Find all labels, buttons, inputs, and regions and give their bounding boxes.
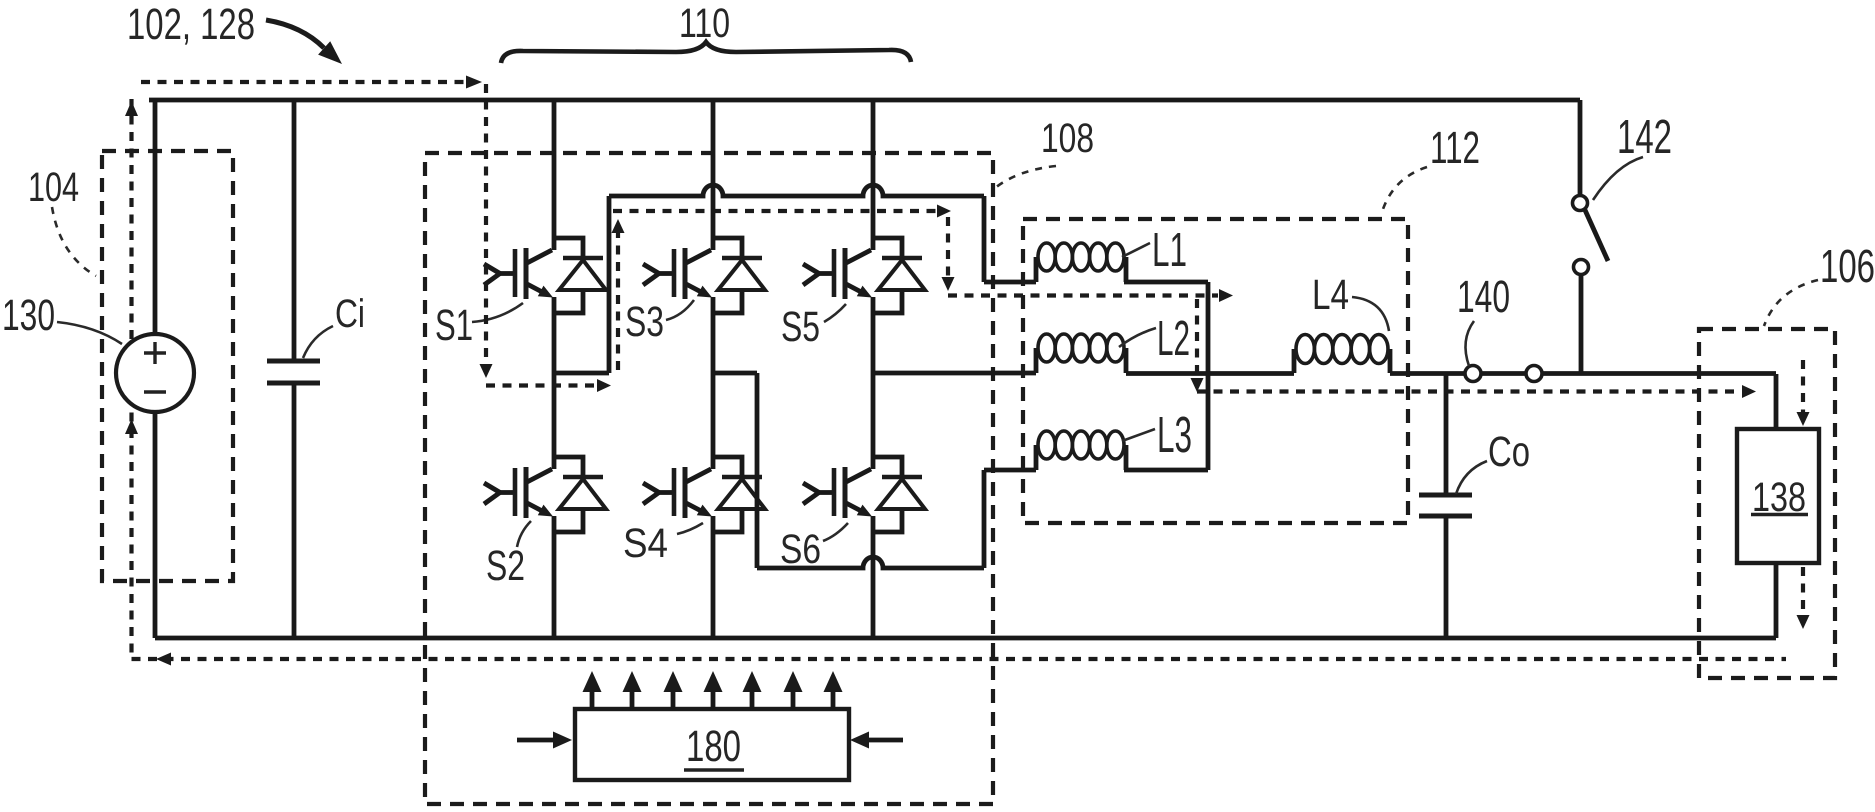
svg-text:104: 104	[28, 164, 79, 210]
transistor S1 with diode	[484, 238, 606, 313]
wire phase A horizontal with hops	[609, 185, 984, 196]
wire source bottom	[153, 412, 158, 638]
label 180	[684, 722, 744, 771]
leader Ci	[303, 326, 333, 358]
label S5	[781, 304, 820, 351]
wire phase A to L1	[984, 280, 1036, 285]
dashed box 112	[1023, 219, 1408, 523]
leader L1	[1122, 243, 1150, 257]
input arrow right of 180	[850, 732, 903, 749]
label S3	[625, 299, 664, 346]
wire positive top rail	[149, 98, 1580, 103]
inductor L4	[1294, 335, 1390, 374]
dashed flow path top horizontal	[613, 205, 951, 218]
label 110	[679, 0, 730, 46]
wire output bus right	[1390, 371, 1776, 376]
wire leg 1 lower	[552, 516, 557, 638]
dashed flow path right below S1	[486, 379, 611, 392]
wire leg 1 upper	[552, 100, 557, 250]
transistor S3 with diode	[643, 238, 765, 313]
voltage source 130 circle	[116, 334, 194, 412]
dashed box 104	[102, 151, 233, 581]
leader 140	[1465, 321, 1474, 366]
wire leg 2 lower	[711, 516, 716, 638]
label Ci	[335, 292, 365, 336]
svg-text:108: 108	[1041, 115, 1094, 161]
wire Ci top	[292, 100, 297, 360]
label 130	[2, 291, 55, 340]
capacitor Ci bottom plate	[267, 381, 320, 386]
label L2	[1157, 311, 1190, 366]
wire switch 142 top	[1578, 100, 1583, 195]
wire phase A riser	[607, 196, 612, 373]
wire source top	[153, 100, 158, 334]
dashed box 108	[425, 153, 993, 804]
wire load to rail	[1774, 563, 1779, 638]
wire phase C to L2	[873, 371, 1036, 376]
label L4	[1312, 272, 1349, 319]
inductor L1	[1036, 243, 1126, 282]
leader 142	[1593, 157, 1643, 200]
wire leg 1 middle	[552, 297, 557, 469]
wire phase B midpoint	[713, 371, 757, 376]
leader S5	[824, 304, 846, 322]
dashed leader 112	[1382, 167, 1427, 212]
wire leg 3 lower	[871, 516, 876, 638]
up arrow on left dashed edge (middle)	[125, 419, 138, 434]
svg-text:Ci: Ci	[335, 292, 365, 336]
input arrow left of 180	[517, 732, 572, 749]
label S4	[623, 520, 668, 566]
dashed box 102/128 bottom edge	[132, 657, 1787, 661]
dashed down arrow lower in 106	[1797, 567, 1810, 629]
wire Ci bottom	[292, 384, 297, 638]
label L1	[1152, 224, 1187, 277]
dashed flow path into block 112	[948, 289, 1233, 302]
leader L4	[1352, 297, 1389, 331]
dashed flow path output long	[1197, 385, 1756, 398]
switch 142 bottom contact	[1574, 260, 1589, 275]
label 106	[1820, 240, 1875, 292]
gate drive arrows from 180	[583, 671, 843, 709]
dashed leader 104	[52, 207, 96, 276]
wire L1 output	[1124, 280, 1208, 285]
switch 142 top contact	[1573, 196, 1588, 211]
label 112	[1430, 122, 1480, 173]
wire leg 2 upper	[711, 100, 716, 250]
leader arrow for 102, 128	[266, 20, 342, 64]
brace 110	[501, 42, 911, 63]
node circle left	[1465, 366, 1481, 382]
svg-text:L2: L2	[1157, 311, 1190, 366]
leader S4	[677, 523, 703, 534]
wire switch 142 bottom	[1579, 275, 1584, 373]
svg-text:180: 180	[686, 722, 741, 771]
svg-text:L4: L4	[1312, 272, 1349, 319]
dashed leader 108	[995, 166, 1056, 188]
source minus sign	[144, 390, 166, 393]
dashed leader 106	[1764, 280, 1818, 326]
label Co	[1488, 429, 1530, 476]
dashed down arrow upper in 106	[1797, 360, 1810, 426]
svg-text:S2: S2	[486, 543, 525, 590]
switch 142 blade	[1585, 210, 1608, 261]
wire leg 2 middle	[711, 297, 716, 469]
leader 130	[57, 322, 122, 344]
label 104	[28, 164, 79, 210]
transistor S2 with diode	[484, 457, 606, 532]
svg-text:Co: Co	[1488, 429, 1530, 476]
svg-text:110: 110	[679, 0, 730, 46]
load box 138	[1737, 429, 1819, 563]
leader S3	[666, 300, 694, 320]
transistor S4 with diode	[643, 457, 765, 532]
label S1	[435, 301, 473, 350]
wire leg 3 middle	[871, 297, 876, 469]
wire Co bottom	[1444, 517, 1449, 638]
wire Co branch	[1444, 374, 1449, 495]
wire into load	[1774, 374, 1779, 429]
leader Co	[1456, 461, 1487, 494]
capacitor Co top plate	[1419, 493, 1472, 498]
svg-text:130: 130	[2, 291, 55, 340]
svg-text:S6: S6	[780, 526, 821, 572]
inductor L3	[1036, 431, 1126, 470]
wire phase B horizontal with hop	[757, 557, 984, 568]
wire phase A down	[982, 196, 987, 282]
svg-text:S1: S1	[435, 301, 473, 350]
wire L3 output	[1124, 468, 1208, 473]
svg-text:112: 112	[1430, 122, 1480, 173]
inductor L2	[1036, 334, 1126, 373]
leader L3	[1122, 429, 1155, 441]
dashed box 102/128 left edge	[129, 99, 133, 655]
wire phase A midpoint	[554, 371, 609, 376]
node circle right	[1526, 366, 1542, 382]
leader S6	[823, 523, 848, 541]
leader S2	[517, 521, 531, 547]
svg-text:142: 142	[1617, 111, 1672, 164]
label 142	[1617, 111, 1672, 164]
leader S1	[472, 303, 523, 322]
capacitor Ci top plate	[267, 359, 320, 364]
svg-text:S3: S3	[625, 299, 664, 346]
dashed box 102/128 top edge with arrow	[141, 76, 482, 89]
source plus sign	[144, 342, 166, 364]
wire leg 3 upper	[871, 100, 876, 250]
label S6	[780, 526, 821, 572]
label 102, 128	[127, 0, 255, 49]
svg-text:102, 128: 102, 128	[127, 0, 255, 49]
transistor S6 with diode	[803, 457, 925, 532]
wire phase B riser	[982, 470, 987, 568]
left arrow on bottom dashed edge	[156, 653, 171, 666]
dashed flow path up right of S1	[612, 219, 625, 370]
label L3	[1157, 406, 1192, 463]
wire phase B drop	[755, 373, 760, 568]
svg-text:L1: L1	[1152, 224, 1187, 277]
wire output bus	[1126, 371, 1294, 376]
wire common node riser	[1206, 282, 1211, 470]
capacitor Co bottom plate	[1419, 514, 1472, 519]
svg-text:L3: L3	[1157, 406, 1192, 463]
wire phase B to L3	[984, 468, 1036, 473]
svg-text:S4: S4	[623, 520, 668, 566]
label 108	[1041, 115, 1094, 161]
up arrow on left dashed edge (top)	[125, 101, 138, 116]
dashed box 106	[1699, 329, 1835, 678]
label 138	[1751, 474, 1808, 520]
dashed flow path down in 112	[1191, 299, 1204, 392]
wire negative bottom rail	[155, 636, 1776, 641]
controller box 180	[575, 709, 849, 780]
label S2	[486, 543, 525, 590]
svg-text:106: 106	[1820, 240, 1875, 292]
dashed flow path down at S1 left	[480, 84, 493, 378]
svg-text:140: 140	[1457, 271, 1510, 322]
dashed flow path down right of S5	[942, 217, 955, 291]
label 140	[1457, 271, 1510, 322]
leader L2	[1119, 328, 1156, 347]
transistor S5 with diode	[803, 238, 925, 313]
svg-text:S5: S5	[781, 304, 820, 351]
